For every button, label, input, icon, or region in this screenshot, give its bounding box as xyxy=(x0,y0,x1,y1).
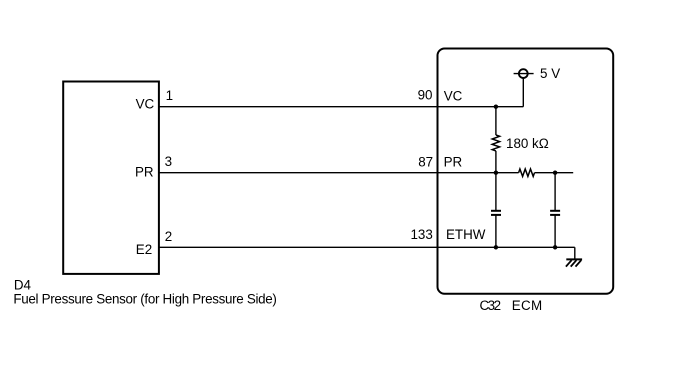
wire right capacitor down to ETHW node xyxy=(554,215,556,247)
svg-text:3: 3 xyxy=(165,154,172,169)
wire VC node down to resistor xyxy=(495,107,497,135)
svg-text:133: 133 xyxy=(410,227,432,242)
svg-text:ECM: ECM xyxy=(512,298,542,313)
junction dot ETHW node left xyxy=(494,245,498,249)
5V supply symbol circle xyxy=(519,69,528,78)
capacitor right top plate xyxy=(550,210,560,212)
ground hatch 2 xyxy=(571,260,577,266)
ECM box C32 xyxy=(438,49,614,294)
wire PR horizontal xyxy=(159,172,519,174)
svg-text:D4: D4 xyxy=(14,278,32,293)
sensor D4 box xyxy=(63,82,159,274)
svg-text:C32: C32 xyxy=(480,298,502,313)
svg-text:VC: VC xyxy=(136,97,155,112)
ground bar xyxy=(566,258,582,260)
svg-text:90: 90 xyxy=(418,87,433,102)
svg-text:87: 87 xyxy=(418,154,433,169)
capacitor left top plate xyxy=(491,210,501,212)
junction dot PR node right xyxy=(553,171,557,175)
resistor horizontal zigzag on PR line xyxy=(519,169,535,176)
wire PR resistor to stub end xyxy=(535,172,574,174)
wire left capacitor down to ETHW node xyxy=(495,215,497,247)
svg-text:5 V: 5 V xyxy=(540,66,560,81)
junction dot PR node left xyxy=(494,171,498,175)
5V supply crossbar xyxy=(514,73,534,75)
wire PR node down to left capacitor xyxy=(495,173,497,211)
svg-text:PR: PR xyxy=(444,154,463,169)
ground hatch 1 xyxy=(566,260,572,266)
svg-text:ETHW: ETHW xyxy=(446,227,486,242)
svg-text:Fuel Pressure Sensor (for High: Fuel Pressure Sensor (for High Pressure … xyxy=(13,292,277,307)
capacitor right bottom plate xyxy=(550,214,560,216)
svg-text:E2: E2 xyxy=(136,242,152,257)
wire VC horizontal xyxy=(159,106,523,108)
junction dot ETHW node right xyxy=(553,245,557,249)
junction dot VC node xyxy=(494,105,498,109)
ground hatch 3 xyxy=(576,260,582,266)
svg-text:180 kΩ: 180 kΩ xyxy=(506,136,549,151)
svg-text:1: 1 xyxy=(166,88,173,103)
resistor 180 kOhm zigzag xyxy=(492,135,499,151)
wire ETHW horizontal xyxy=(159,246,575,248)
wire ETHW down to ground xyxy=(574,247,576,259)
svg-text:2: 2 xyxy=(165,229,172,244)
svg-text:PR: PR xyxy=(135,164,154,179)
svg-text:VC: VC xyxy=(444,89,463,104)
wire from 5V down to VC node xyxy=(522,78,524,107)
capacitor left bottom plate xyxy=(491,214,501,216)
wire resistor down to PR node xyxy=(495,151,497,173)
wire PR right node down to right capacitor xyxy=(554,173,556,211)
